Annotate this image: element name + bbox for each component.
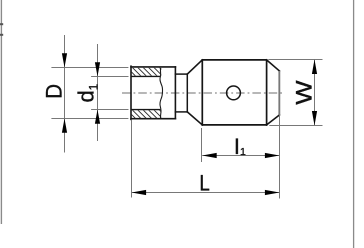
barrel outline [131, 66, 175, 119]
barrel hatch top band [126, 67, 168, 77]
L arrow right [265, 190, 280, 195]
page frame right vertical line [353, 0, 355, 248]
page frame left vertical line [0, 0, 2, 224]
D extension line bottom [51, 118, 128, 120]
D arrow bottom (outside, pointing up) [62, 119, 67, 133]
svg-text:L: L [199, 172, 209, 196]
page frame tick 1 [0, 23, 3, 25]
svg-text:D: D [42, 84, 67, 99]
tab tip edge [278, 71, 280, 115]
W arrow top (inside, pointing up) [312, 60, 317, 75]
l1 extension line left [201, 128, 203, 162]
barrel inner bore lines [131, 76, 160, 109]
svg-text:I1: I1 [234, 134, 246, 159]
tab tip chamfers [267, 60, 280, 125]
svg-text:W: W [292, 80, 317, 105]
d1 dimension line [97, 44, 99, 141]
L / l1 shared extension line right [279, 71, 281, 199]
page frame tick 2 [0, 34, 3, 36]
L arrow left [132, 190, 147, 195]
L extension line left [131, 120, 133, 198]
l1 arrow left [202, 153, 217, 158]
D dimension line [64, 35, 66, 153]
centerline [122, 92, 285, 94]
W extension line bottom [269, 125, 322, 127]
W extension line top [268, 59, 322, 61]
D arrow top (outside, pointing down) [62, 53, 67, 67]
l1 arrow right [265, 153, 280, 158]
D extension line top [51, 67, 128, 69]
tab body outline [202, 60, 266, 125]
barrel hatch bottom band [126, 109, 169, 120]
svg-text:d1: d1 [73, 84, 100, 103]
l1 dimension line [202, 155, 279, 157]
W dimension line [314, 60, 316, 126]
hole in tab [227, 86, 241, 100]
L dimension line [132, 192, 280, 194]
d1 extension line bottom [91, 109, 128, 111]
W arrow bottom (inside, pointing down) [312, 111, 317, 126]
wavy break line [160, 68, 163, 119]
d1 arrow top (outside, pointing down) [95, 62, 100, 76]
neck outline [175, 74, 187, 112]
shoulder flare diagonals [187, 60, 202, 125]
d1 arrow bottom (outside, pointing up) [95, 110, 100, 124]
d1 extension line top [91, 76, 128, 78]
